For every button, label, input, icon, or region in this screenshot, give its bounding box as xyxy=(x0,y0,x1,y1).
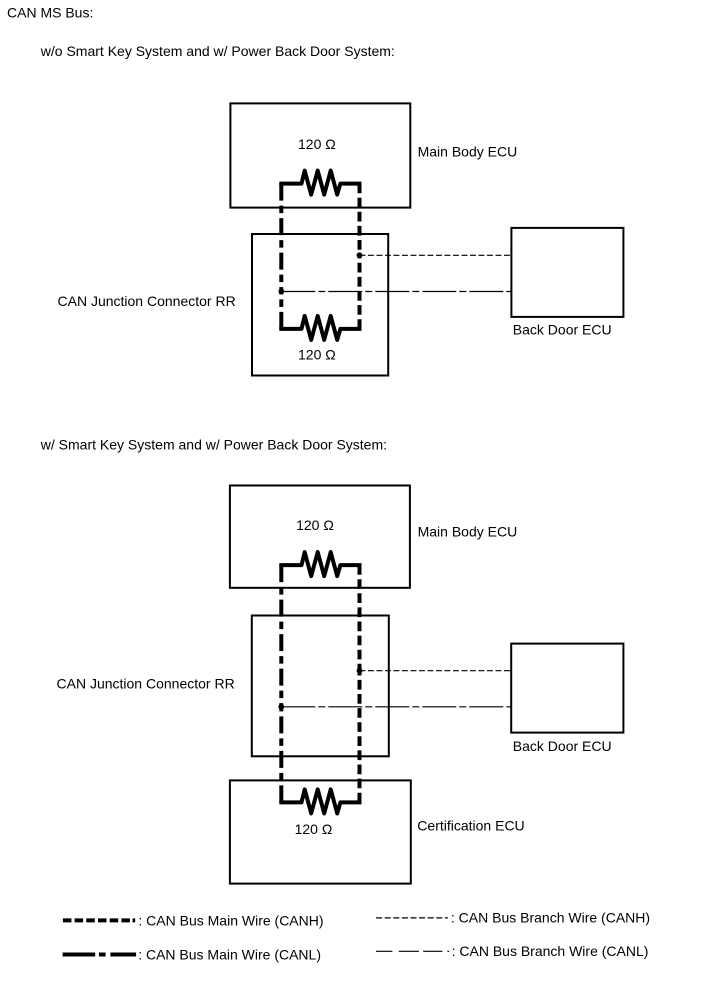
node CANL (diagram 2) xyxy=(278,704,284,710)
Back Door ECU box (diagram 1) xyxy=(511,228,623,317)
wire CANH branch to Back Door ECU (diagram 1) xyxy=(360,254,512,256)
svg-text:Main Body ECU: Main Body ECU xyxy=(418,524,518,540)
wire CANH main (diagram 1, right vertical, upper run) xyxy=(358,184,362,256)
svg-text:: CAN Bus Main Wire (CANH): : CAN Bus Main Wire (CANH) xyxy=(138,912,323,928)
svg-text:120 Ω: 120 Ω xyxy=(295,821,333,837)
resistor R1 (120 ohm, Main Body ECU, diagram 1) xyxy=(279,171,361,195)
wire CANL branch to Back Door ECU (diagram 2) xyxy=(281,706,511,708)
svg-text:120 Ω: 120 Ω xyxy=(298,346,336,362)
wire CANL branch to Back Door ECU (diagram 1) xyxy=(281,291,511,293)
node CANH (diagram 2) xyxy=(357,668,363,674)
node CANH (diagram 1) xyxy=(357,252,363,258)
wire CANH main (diagram 2, right vertical, lower run) xyxy=(358,671,362,803)
Back Door ECU box (diagram 2) xyxy=(511,644,623,733)
legend sample: CAN Bus Branch Wire CANL xyxy=(376,950,449,952)
node CANL (diagram 1) xyxy=(278,289,284,295)
resistor R3 (120 ohm, Main Body ECU, diagram 2) xyxy=(279,552,361,576)
wire CANL main (diagram 1, left vertical, lower run) xyxy=(279,292,283,329)
svg-text:: CAN Bus Branch Wire (CANL): : CAN Bus Branch Wire (CANL) xyxy=(452,943,649,959)
CAN Junction Connector RR box (diagram 1) xyxy=(252,234,388,376)
svg-text:Main Body ECU: Main Body ECU xyxy=(418,144,518,160)
svg-text:CAN Junction Connector RR: CAN Junction Connector RR xyxy=(58,293,236,309)
svg-text:: CAN Bus Main Wire (CANL): : CAN Bus Main Wire (CANL) xyxy=(138,947,321,963)
legend sample: CAN Bus Main Wire CANL xyxy=(63,953,137,957)
legend sample: CAN Bus Branch Wire CANH xyxy=(376,917,448,919)
Main Body ECU box (diagram 1) xyxy=(230,103,410,207)
wire CANL main (diagram 1, left vertical, upper run) xyxy=(279,184,283,292)
svg-text:w/o Smart Key System and w/ Po: w/o Smart Key System and w/ Power Back D… xyxy=(40,43,395,59)
CAN Junction Connector RR box (diagram 2) xyxy=(252,616,389,757)
svg-text:Back Door ECU: Back Door ECU xyxy=(513,738,612,754)
wire CANH main (diagram 1, right vertical, lower run) xyxy=(358,255,362,329)
svg-text:120 Ω: 120 Ω xyxy=(296,517,334,533)
wire CANL main (diagram 2, left vertical, lower run) xyxy=(279,707,283,803)
legend sample: CAN Bus Main Wire CANH xyxy=(63,918,135,922)
svg-text:120 Ω: 120 Ω xyxy=(298,136,336,152)
wire CANH main (diagram 2, right vertical, upper run) xyxy=(358,565,362,671)
svg-text:w/ Smart Key System and w/ Pow: w/ Smart Key System and w/ Power Back Do… xyxy=(40,437,387,453)
svg-text:Certification ECU: Certification ECU xyxy=(417,818,524,834)
wire CANL main (diagram 2, left vertical, upper run) xyxy=(279,565,283,707)
resistor R4 (120 ohm, Certification ECU) xyxy=(279,789,361,813)
svg-text:CAN MS Bus:: CAN MS Bus: xyxy=(7,5,93,21)
wire CANH branch to Back Door ECU (diagram 2) xyxy=(360,670,512,672)
resistor R2 (120 ohm, junction connector, diagram 1) xyxy=(279,316,361,340)
svg-text:Back Door ECU: Back Door ECU xyxy=(513,322,612,338)
svg-text:CAN Junction Connector RR: CAN Junction Connector RR xyxy=(57,675,235,691)
Main Body ECU box (diagram 2) xyxy=(230,486,410,588)
svg-text:: CAN Bus Branch Wire (CANH): : CAN Bus Branch Wire (CANH) xyxy=(451,910,650,926)
Certification ECU box (diagram 2) xyxy=(230,780,411,883)
